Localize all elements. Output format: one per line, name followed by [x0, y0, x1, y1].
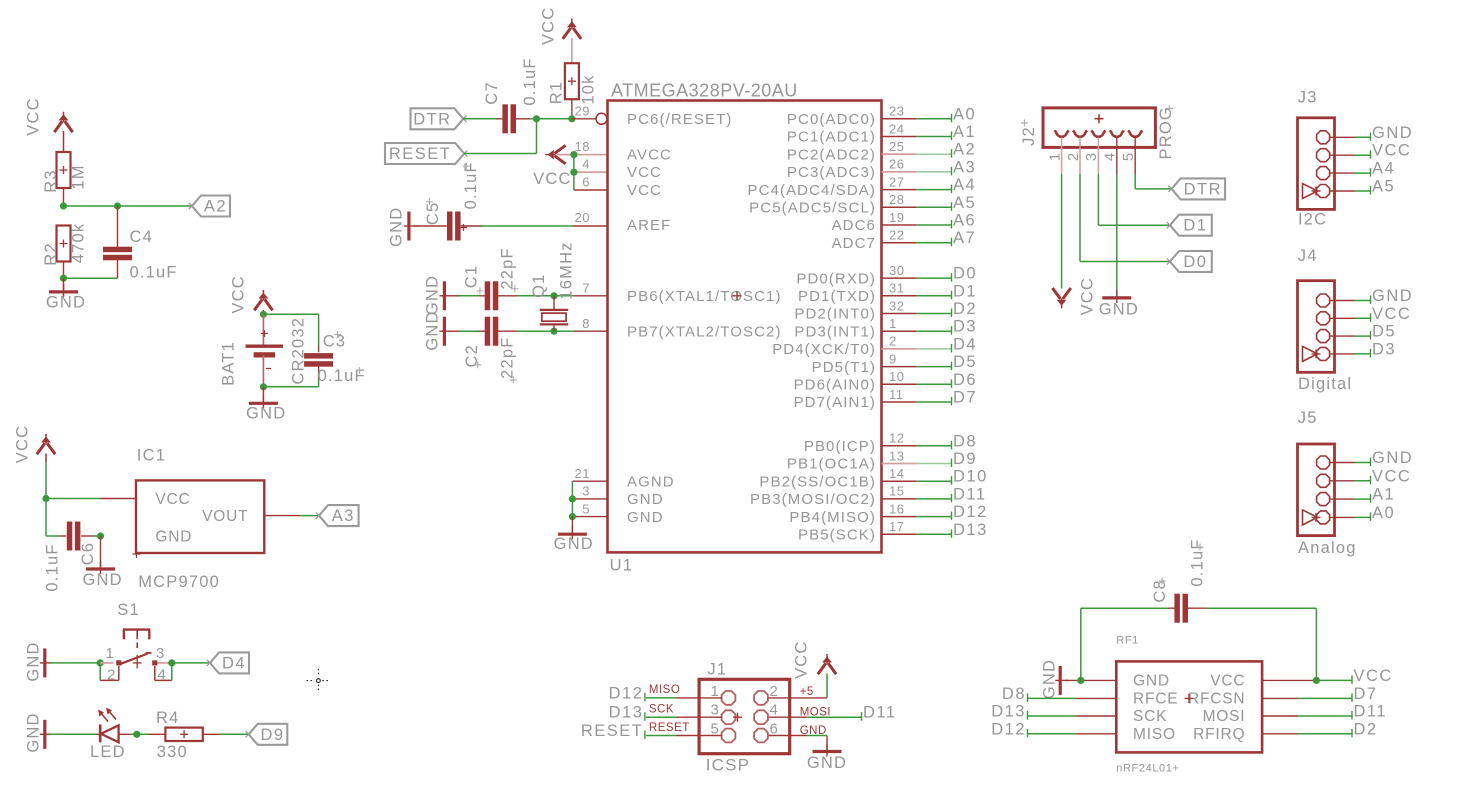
value 16MHz: [557, 241, 575, 299]
svg-text:IC1: IC1: [137, 447, 166, 465]
svg-text:PB5(SCK): PB5(SCK): [798, 527, 876, 544]
svg-text:RESET: RESET: [649, 722, 690, 734]
svg-text:7: 7: [582, 281, 590, 296]
pin 27 PC4(ADC4/SDA): [748, 182, 877, 199]
svg-text:VCC: VCC: [1372, 305, 1411, 323]
wire BAT1 to GND: [260, 383, 319, 403]
svg-text:D4: D4: [222, 654, 246, 672]
pin number 6 (left): [582, 174, 590, 189]
battery BAT1: [246, 314, 284, 387]
wire net A0 (J5): [1330, 516, 1371, 518]
svg-text:D7: D7: [953, 389, 977, 407]
ground (U1): [554, 526, 594, 553]
pin 10 PD6(AIN0): [794, 377, 876, 394]
pin number 2 (J2): [1065, 152, 1082, 161]
ground (BAT1): [246, 395, 286, 422]
wire C7 to IC pin 29: [530, 115, 596, 122]
svg-text:6: 6: [582, 174, 590, 189]
node D13 (RF1): [991, 703, 1027, 721]
svg-text:0.1uF: 0.1uF: [1188, 538, 1206, 586]
pin 3 (J5): [1317, 493, 1330, 506]
svg-text:9: 9: [889, 351, 897, 366]
pin 29 bubble: [596, 113, 607, 124]
pin number 24: [889, 121, 904, 136]
wire RESET to J1: [646, 735, 722, 737]
svg-text:A4: A4: [1372, 160, 1395, 178]
pin number 18 (left): [575, 139, 590, 154]
svg-text:J4: J4: [1298, 247, 1318, 265]
crystal Q1: [540, 296, 568, 331]
origin cross U1: [733, 291, 742, 300]
svg-text:10: 10: [889, 369, 904, 384]
svg-text:D13: D13: [953, 521, 988, 539]
wire J2-1 to VCC: [1061, 174, 1063, 289]
node D0: [952, 265, 978, 283]
svg-text:D5: D5: [953, 353, 977, 371]
svg-text:D1: D1: [953, 282, 977, 300]
pin number 3 (J2): [1083, 152, 1100, 161]
pads J1: [722, 691, 768, 742]
wire IC1 GND: [97, 532, 104, 569]
pin name RFIRQ (RF1): [1193, 726, 1245, 743]
wire net A7: [882, 242, 953, 244]
pin name RESET (J1): [649, 722, 690, 734]
svg-text:A6: A6: [953, 212, 976, 230]
pin number 5 (left): [582, 501, 590, 516]
svg-text:MISO: MISO: [1133, 726, 1176, 743]
svg-text:VCC: VCC: [24, 97, 42, 135]
resistor R2: [42, 223, 88, 266]
connector J5 box: [1298, 444, 1335, 536]
connector J2 box: [1043, 108, 1155, 147]
wire net D11: [882, 498, 953, 500]
pin 14 PB2(SS/OC1B): [759, 473, 876, 490]
svg-text:29: 29: [575, 104, 590, 119]
wire net D2: [882, 313, 953, 315]
svg-text:D12: D12: [953, 503, 988, 521]
svg-text:MISO: MISO: [649, 684, 680, 696]
wire net A4 (J3): [1330, 172, 1371, 174]
svg-text:GND: GND: [246, 405, 286, 423]
wire net VCC (J3): [1330, 154, 1371, 156]
svg-text:4: 4: [158, 667, 168, 684]
svg-text:GND: GND: [387, 207, 405, 247]
svg-text:R2: R2: [42, 242, 60, 266]
value 22pF (C2): [499, 336, 517, 383]
svg-text:ICSP: ICSP: [706, 756, 750, 775]
svg-text:30: 30: [889, 263, 904, 278]
wire J1-4 to D11: [769, 716, 862, 718]
wire net D6: [882, 383, 953, 385]
svg-text:A5: A5: [953, 194, 976, 212]
pin number 15: [889, 484, 904, 499]
node GND (J3): [1371, 124, 1414, 142]
wire J2-2 to D0: [1080, 174, 1170, 262]
node VCC (J3): [1371, 142, 1412, 160]
svg-text:GND: GND: [24, 712, 42, 752]
node A4: [952, 176, 977, 194]
node A2: [952, 141, 977, 159]
pin number 32: [889, 298, 904, 313]
node D11 (RF1): [1352, 703, 1387, 721]
wire net A5: [882, 206, 953, 208]
svg-text:A0: A0: [953, 105, 976, 123]
svg-text:D12: D12: [609, 684, 644, 702]
pin name VCC: [627, 164, 662, 181]
node D13 (J1): [609, 704, 645, 722]
node VCC (J4): [1371, 305, 1412, 323]
svg-text:D1: D1: [1183, 217, 1207, 235]
svg-text:AVCC: AVCC: [627, 146, 672, 163]
wire net VCC (J4): [1330, 317, 1371, 319]
svg-text:D9: D9: [953, 450, 977, 468]
svg-text:26: 26: [889, 157, 904, 172]
svg-text:22pF: 22pF: [499, 247, 517, 289]
wire net VCC (J5): [1330, 480, 1371, 482]
svg-text:C3: C3: [323, 333, 347, 351]
pin number 27: [889, 174, 904, 189]
label IC1: [137, 447, 166, 465]
pin 2 PD4(XCK/T0): [772, 341, 876, 358]
node A3: [952, 158, 977, 176]
wire VCC to R3: [63, 131, 65, 152]
svg-text:27: 27: [889, 174, 904, 189]
label J2: [1020, 120, 1038, 146]
resistor R3: [42, 152, 88, 193]
svg-text:PC0(ADC0): PC0(ADC0): [787, 111, 876, 128]
ground (J2): [1099, 290, 1139, 319]
ground (RF1): [1040, 659, 1068, 699]
value MCP9700: [138, 573, 220, 591]
ground (C1): [423, 275, 452, 315]
svg-text:PD6(AIN0): PD6(AIN0): [794, 377, 876, 394]
pin 15 PB3(MOSI/OC2): [750, 491, 876, 508]
wire VCC to IC1: [42, 454, 136, 537]
svg-text:VCC: VCC: [155, 491, 190, 508]
svg-text:D11: D11: [863, 704, 897, 722]
svg-text:4: 4: [770, 702, 780, 719]
pin number 29 (left): [575, 104, 590, 119]
power VCC (J2, down): [1052, 277, 1096, 315]
svg-text:D2: D2: [1354, 720, 1378, 738]
svg-text:D11: D11: [1354, 703, 1388, 721]
svg-text:MOSI: MOSI: [1203, 708, 1246, 725]
label C3: [323, 331, 347, 351]
svg-text:VCC: VCC: [627, 164, 662, 181]
svg-text:BAT1: BAT1: [219, 341, 237, 386]
ground (R2): [46, 284, 86, 312]
svg-text:1M: 1M: [69, 164, 87, 189]
svg-text:+5: +5: [800, 686, 814, 698]
wire net A3: [882, 171, 953, 173]
wire net A1 (J5): [1330, 498, 1371, 500]
wire net D1: [882, 295, 953, 297]
pin 3 (J3): [1317, 167, 1330, 180]
capacitor C1: [450, 281, 498, 310]
node D7: [952, 389, 978, 407]
svg-text:GND: GND: [24, 641, 42, 681]
power VCC (J1): [793, 640, 837, 678]
wire net GND (J5): [1330, 462, 1371, 464]
wire net A0: [882, 118, 953, 120]
pin number 31: [889, 281, 904, 296]
svg-text:VCC: VCC: [1210, 673, 1245, 690]
svg-text:A7: A7: [953, 229, 976, 247]
junction: [260, 311, 267, 318]
value 0.1uF (C5): [462, 161, 480, 209]
pin number 2: [889, 334, 897, 349]
pin stubs J2: [1062, 138, 1136, 175]
node D10: [952, 468, 988, 486]
label C8: [1151, 578, 1169, 603]
pin 4 (J5): [1303, 510, 1330, 525]
value Digital: [1298, 375, 1352, 393]
pin 12 PB0(ICP): [804, 438, 876, 455]
svg-text:PB6(XTAL1/TOSC1): PB6(XTAL1/TOSC1): [627, 288, 782, 305]
svg-text:15: 15: [889, 484, 904, 499]
pin number 11: [889, 387, 904, 402]
pin number 17: [889, 519, 904, 534]
node D8 (RF1): [1002, 685, 1028, 703]
node RESET (J1): [581, 722, 645, 740]
wire net D12: [882, 516, 953, 518]
svg-text:PD3(INT1): PD3(INT1): [794, 323, 876, 340]
pin 2 (J3): [1317, 149, 1330, 162]
svg-text:PD1(TXD): PD1(TXD): [798, 288, 876, 305]
wire net D7: [882, 401, 953, 403]
pin number 30: [889, 263, 904, 278]
pin number 13: [889, 448, 904, 463]
pin name PC6(/RESET): [627, 111, 732, 128]
label J5: [1298, 409, 1318, 427]
svg-text:GND: GND: [627, 509, 664, 526]
node D11: [952, 485, 987, 503]
pin name MOSI (RF1): [1203, 708, 1246, 725]
svg-text:GND: GND: [627, 491, 664, 508]
node D5: [952, 353, 978, 371]
svg-text:GND: GND: [46, 294, 86, 312]
svg-text:PB2(SS/OC1B): PB2(SS/OC1B): [759, 473, 876, 490]
pin name AREF: [627, 217, 671, 234]
wire RESET net: [464, 119, 536, 154]
wire net D13: [882, 533, 953, 535]
pin name MISO (J1): [649, 684, 680, 696]
svg-text:0.1uF: 0.1uF: [318, 367, 366, 385]
pin 2 (J2) cup: [1073, 130, 1087, 136]
connector J4 box: [1298, 281, 1335, 373]
svg-text:D9: D9: [260, 726, 284, 744]
svg-text:U1: U1: [610, 557, 634, 575]
svg-text:AGND: AGND: [627, 473, 675, 490]
pin number 23: [889, 104, 904, 119]
node D12: [952, 503, 988, 521]
value 0.1uF (C6): [43, 543, 61, 591]
svg-text:R1: R1: [547, 81, 565, 105]
pin 2 (J5): [1317, 474, 1330, 487]
svg-text:VCC: VCC: [230, 275, 248, 313]
wire RF1 to D7: [1262, 697, 1352, 699]
pin number 5 (J2): [1120, 152, 1137, 161]
power VCC (R3 divider): [24, 97, 72, 135]
svg-text:14: 14: [889, 466, 904, 481]
svg-text:330: 330: [157, 743, 188, 761]
pin 4 (J3): [1303, 184, 1330, 199]
svg-text:PD5(T1): PD5(T1): [812, 359, 876, 376]
pin 30 PD0(RXD): [796, 270, 876, 287]
pin numbers S1: [106, 645, 168, 684]
wire RF1 to D2: [1262, 733, 1352, 735]
svg-text:RESET: RESET: [581, 722, 644, 740]
svg-text:D3: D3: [953, 318, 977, 336]
node D4: [952, 335, 978, 353]
wire VCC vertical: [573, 155, 575, 190]
flag D4: [207, 652, 249, 673]
wire J1-2 to VCC: [769, 674, 827, 698]
flag DTR (right): [1168, 178, 1225, 199]
svg-text:A1: A1: [1372, 486, 1395, 504]
svg-text:3: 3: [156, 645, 166, 662]
svg-text:D2: D2: [953, 300, 977, 318]
svg-text:GND: GND: [1372, 287, 1413, 305]
pin number 22: [889, 228, 904, 243]
svg-text:PC4(ADC4/SDA): PC4(ADC4/SDA): [748, 182, 877, 199]
pin name MOSI (J1): [800, 707, 831, 719]
wire C2 to pin 8: [498, 328, 608, 335]
svg-text:C5: C5: [424, 202, 442, 226]
pin number 16: [889, 501, 904, 516]
svg-text:VCC: VCC: [627, 182, 662, 199]
wire BAT1 VCC net: [263, 310, 318, 346]
svg-text:PROG: PROG: [1157, 106, 1175, 159]
value 0.1uF (C8): [1188, 538, 1206, 586]
pin 32 PD2(INT0): [794, 306, 876, 323]
pin 1 PD3(INT1): [794, 323, 876, 340]
capacitor C2: [450, 317, 498, 346]
pin 26 PC3(ADC3): [787, 164, 876, 181]
node D7 (RF1): [1352, 685, 1378, 703]
svg-text:D0: D0: [1183, 253, 1207, 271]
svg-text:J5: J5: [1298, 409, 1318, 427]
svg-text:nRF24L01+: nRF24L01+: [1116, 763, 1179, 775]
node D6: [952, 371, 978, 389]
label Q1: [530, 273, 548, 297]
svg-text:VCC: VCC: [793, 640, 811, 678]
pin number 1: [889, 316, 897, 331]
node A0: [952, 105, 977, 123]
pin number 9: [889, 351, 897, 366]
svg-text:28: 28: [889, 192, 904, 207]
pin 19 ADC6: [832, 217, 876, 234]
svg-text:22: 22: [889, 228, 904, 243]
wire D13 to RF1: [1028, 715, 1116, 717]
pin number 3 (left): [582, 484, 590, 499]
switch S1: [100, 630, 172, 669]
pin 1 (J3): [1317, 131, 1330, 144]
pin 22 ADC7: [832, 235, 876, 252]
wire net A5 (J3): [1330, 190, 1371, 192]
svg-text:GND: GND: [807, 754, 847, 772]
pin name AGND: [627, 473, 675, 490]
svg-text:LED: LED: [90, 743, 126, 761]
svg-text:23: 23: [889, 104, 904, 119]
value 22pF (C1): [499, 247, 519, 292]
wire RF1 GND pin: [1065, 677, 1116, 684]
svg-text:J3: J3: [1298, 88, 1318, 106]
svg-text:D11: D11: [953, 485, 987, 503]
node A1: [952, 123, 977, 141]
pin 18 AVCC wire: [557, 151, 609, 158]
node A7: [952, 229, 977, 247]
pin 4 (J4): [1303, 346, 1330, 361]
svg-text:RFCE: RFCE: [1133, 691, 1178, 708]
svg-text:GND: GND: [82, 571, 122, 589]
pin number 8 (left): [582, 316, 590, 331]
svg-text:D13: D13: [609, 704, 644, 722]
pin name PB6(XTAL1/TOSC1): [627, 288, 782, 305]
label C1: [462, 265, 483, 295]
svg-text:GND: GND: [1372, 124, 1413, 142]
power VCC (IC1): [13, 425, 55, 463]
pin 3 (J2) cup: [1091, 130, 1105, 136]
capacitor C5: [447, 212, 482, 241]
node D1: [952, 282, 978, 300]
resistor R1: [547, 63, 597, 104]
svg-text:GND: GND: [1099, 301, 1139, 319]
svg-text:PC6(/RESET): PC6(/RESET): [627, 111, 732, 128]
svg-text:1: 1: [889, 316, 897, 331]
node A5 (J3): [1371, 178, 1396, 196]
svg-text:RFIRQ: RFIRQ: [1193, 726, 1245, 743]
node D8: [952, 432, 978, 450]
value I2C: [1298, 211, 1327, 229]
wire net D8: [882, 445, 953, 447]
pin name RFCSN (RF1): [1188, 691, 1245, 708]
label C7: [483, 81, 501, 105]
svg-text:PC3(ADC3): PC3(ADC3): [787, 164, 876, 181]
svg-text:D7: D7: [1354, 685, 1378, 703]
node D2: [952, 300, 978, 318]
svg-text:C2: C2: [463, 344, 481, 368]
ground (IC1): [82, 561, 122, 589]
svg-text:D8: D8: [1002, 685, 1026, 703]
wire J2-3 to D1: [1098, 174, 1170, 225]
svg-text:C6: C6: [79, 542, 97, 566]
svg-text:3: 3: [711, 702, 721, 719]
pin 1 (J5): [1317, 456, 1330, 469]
label J1: [707, 661, 727, 679]
svg-text:Q1: Q1: [530, 273, 548, 297]
svg-text:4: 4: [582, 157, 590, 172]
wire net D3 (J4): [1330, 353, 1371, 355]
flag RESET (left): [385, 143, 467, 164]
label J3: [1298, 88, 1318, 106]
node A5: [952, 194, 977, 212]
svg-text:PD0(RXD): PD0(RXD): [796, 270, 876, 287]
pin number 4 (J2): [1102, 152, 1119, 161]
pin name GND (5): [627, 509, 664, 526]
svg-text:12: 12: [889, 431, 904, 446]
wire VCC to R1: [571, 38, 573, 64]
pin 31 PD1(TXD): [798, 288, 876, 305]
value 0.1uF (C3): [318, 367, 366, 385]
ground (C5): [387, 207, 417, 247]
wire J2-5 to DTR: [1135, 174, 1171, 189]
svg-text:470k: 470k: [69, 223, 87, 264]
wire C8 net right: [1206, 608, 1316, 680]
wire net D5: [882, 366, 953, 368]
svg-text:ADC6: ADC6: [832, 217, 876, 234]
svg-text:A5: A5: [1372, 178, 1395, 196]
